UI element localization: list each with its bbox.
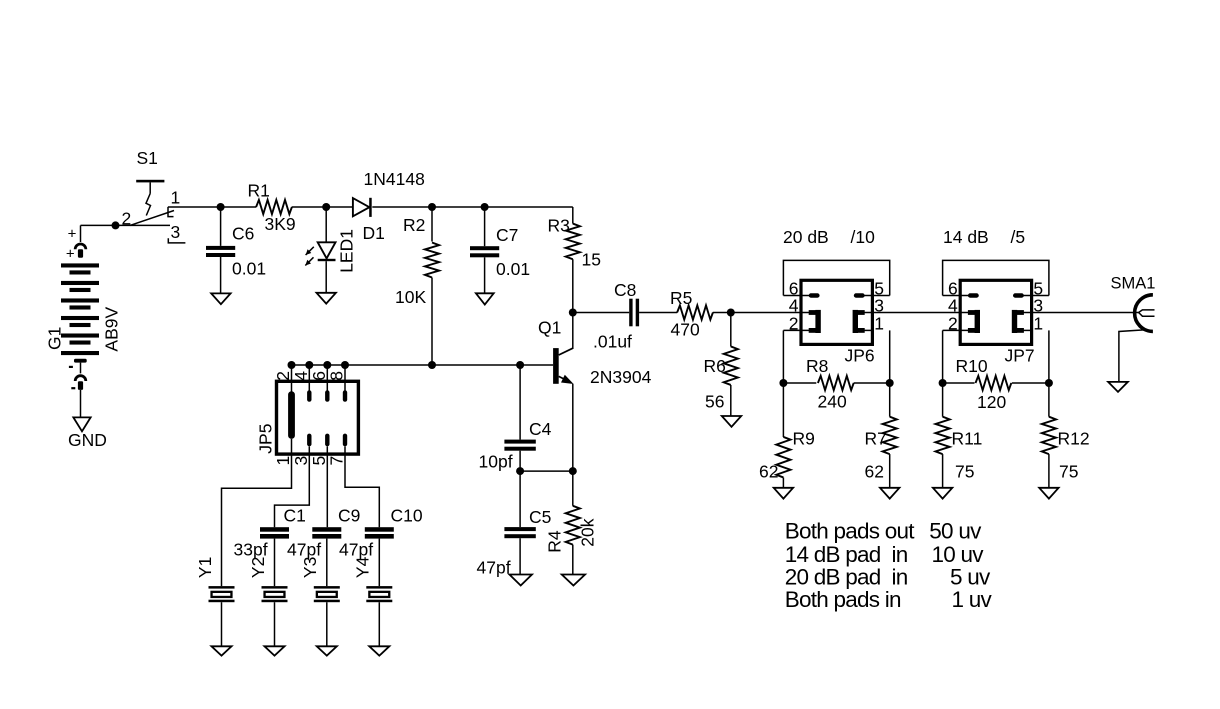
svg-text:R9: R9 (793, 429, 815, 449)
svg-text:R12: R12 (1058, 429, 1090, 449)
svg-text:33pf: 33pf (234, 540, 268, 560)
svg-text:Both pads out: Both pads out (785, 519, 916, 544)
svg-text:GND: GND (68, 430, 107, 450)
svg-text:S1: S1 (137, 148, 158, 168)
svg-text:R11: R11 (952, 429, 983, 449)
svg-text:Y3: Y3 (300, 557, 320, 578)
svg-text:1: 1 (171, 188, 181, 208)
svg-text:C5: C5 (529, 507, 551, 527)
svg-text:C10: C10 (391, 506, 423, 526)
svg-text:G1: G1 (45, 327, 65, 350)
svg-text:C7: C7 (496, 225, 518, 245)
svg-text:Both pads in: Both pads in (785, 587, 901, 612)
svg-text:1: 1 (874, 314, 884, 334)
svg-text:C1: C1 (284, 506, 306, 526)
svg-text:20 dB: 20 dB (783, 227, 829, 247)
svg-text:10pf: 10pf (479, 452, 513, 472)
svg-text:7: 7 (327, 456, 347, 466)
svg-text:R2: R2 (403, 215, 425, 235)
svg-text:3: 3 (291, 456, 311, 466)
svg-text:4: 4 (291, 371, 311, 381)
svg-text:10K: 10K (395, 287, 426, 307)
svg-text:+: + (68, 225, 77, 242)
svg-text:1: 1 (1033, 314, 1043, 334)
svg-text:Y1: Y1 (195, 557, 215, 578)
svg-text:0.01: 0.01 (496, 259, 530, 279)
svg-text:47pf: 47pf (287, 540, 321, 560)
svg-text:.01uf: .01uf (593, 332, 632, 352)
svg-text:20 dB pad in: 20 dB pad in (785, 565, 908, 590)
svg-text:15: 15 (582, 250, 601, 270)
svg-text:R3: R3 (548, 216, 570, 236)
svg-text:120: 120 (977, 392, 1006, 412)
svg-text:R1: R1 (248, 181, 270, 201)
svg-text:R4: R4 (545, 530, 565, 553)
svg-text:1 uv: 1 uv (952, 587, 993, 612)
svg-text:JP5: JP5 (256, 424, 276, 454)
svg-text:C9: C9 (338, 506, 360, 526)
svg-text:/10: /10 (851, 227, 876, 247)
svg-text:62: 62 (865, 462, 884, 482)
svg-text:0.01: 0.01 (232, 259, 266, 279)
svg-text:50 uv: 50 uv (929, 519, 982, 544)
svg-text:R5: R5 (670, 288, 692, 308)
svg-text:47pf: 47pf (339, 540, 373, 560)
svg-text:2N3904: 2N3904 (590, 367, 652, 387)
svg-text:R8: R8 (806, 356, 828, 376)
svg-text:JP7: JP7 (1005, 345, 1035, 365)
svg-text:14 dB: 14 dB (943, 227, 989, 247)
svg-text:C4: C4 (529, 419, 552, 439)
svg-text:1N4148: 1N4148 (364, 169, 425, 189)
svg-text:62: 62 (759, 462, 778, 482)
svg-text:5 uv: 5 uv (950, 565, 991, 590)
svg-text:75: 75 (1059, 462, 1078, 482)
svg-text:R10: R10 (956, 356, 988, 376)
svg-text:2: 2 (122, 208, 132, 228)
svg-text:R7: R7 (865, 429, 887, 449)
svg-text:Q1: Q1 (538, 318, 561, 338)
svg-text:2: 2 (948, 314, 958, 334)
svg-text:10 uv: 10 uv (932, 542, 985, 567)
svg-text:75: 75 (955, 462, 974, 482)
svg-text:D1: D1 (363, 223, 385, 243)
svg-text:Y2: Y2 (248, 557, 268, 578)
svg-text:+: + (66, 245, 75, 262)
svg-text:C6: C6 (232, 224, 254, 244)
svg-text:47pf: 47pf (477, 558, 511, 578)
svg-text:8: 8 (327, 371, 347, 381)
svg-text:20k: 20k (577, 518, 597, 546)
svg-text:3: 3 (171, 222, 181, 242)
svg-text:JP6: JP6 (845, 345, 875, 365)
svg-text:56: 56 (705, 392, 724, 412)
svg-text:/5: /5 (1011, 227, 1026, 247)
svg-text:470: 470 (671, 320, 700, 340)
svg-text:3K9: 3K9 (265, 214, 296, 234)
svg-text:LED1: LED1 (337, 229, 357, 273)
svg-text:2: 2 (789, 314, 799, 334)
svg-text:Y4: Y4 (353, 556, 373, 578)
svg-text:14 dB pad in: 14 dB pad in (785, 542, 908, 567)
svg-text:SMA1: SMA1 (1111, 274, 1156, 292)
svg-text:R6: R6 (704, 356, 726, 376)
svg-text:AB9V: AB9V (102, 307, 122, 352)
svg-text:240: 240 (818, 392, 847, 412)
svg-text:C8: C8 (614, 280, 636, 300)
